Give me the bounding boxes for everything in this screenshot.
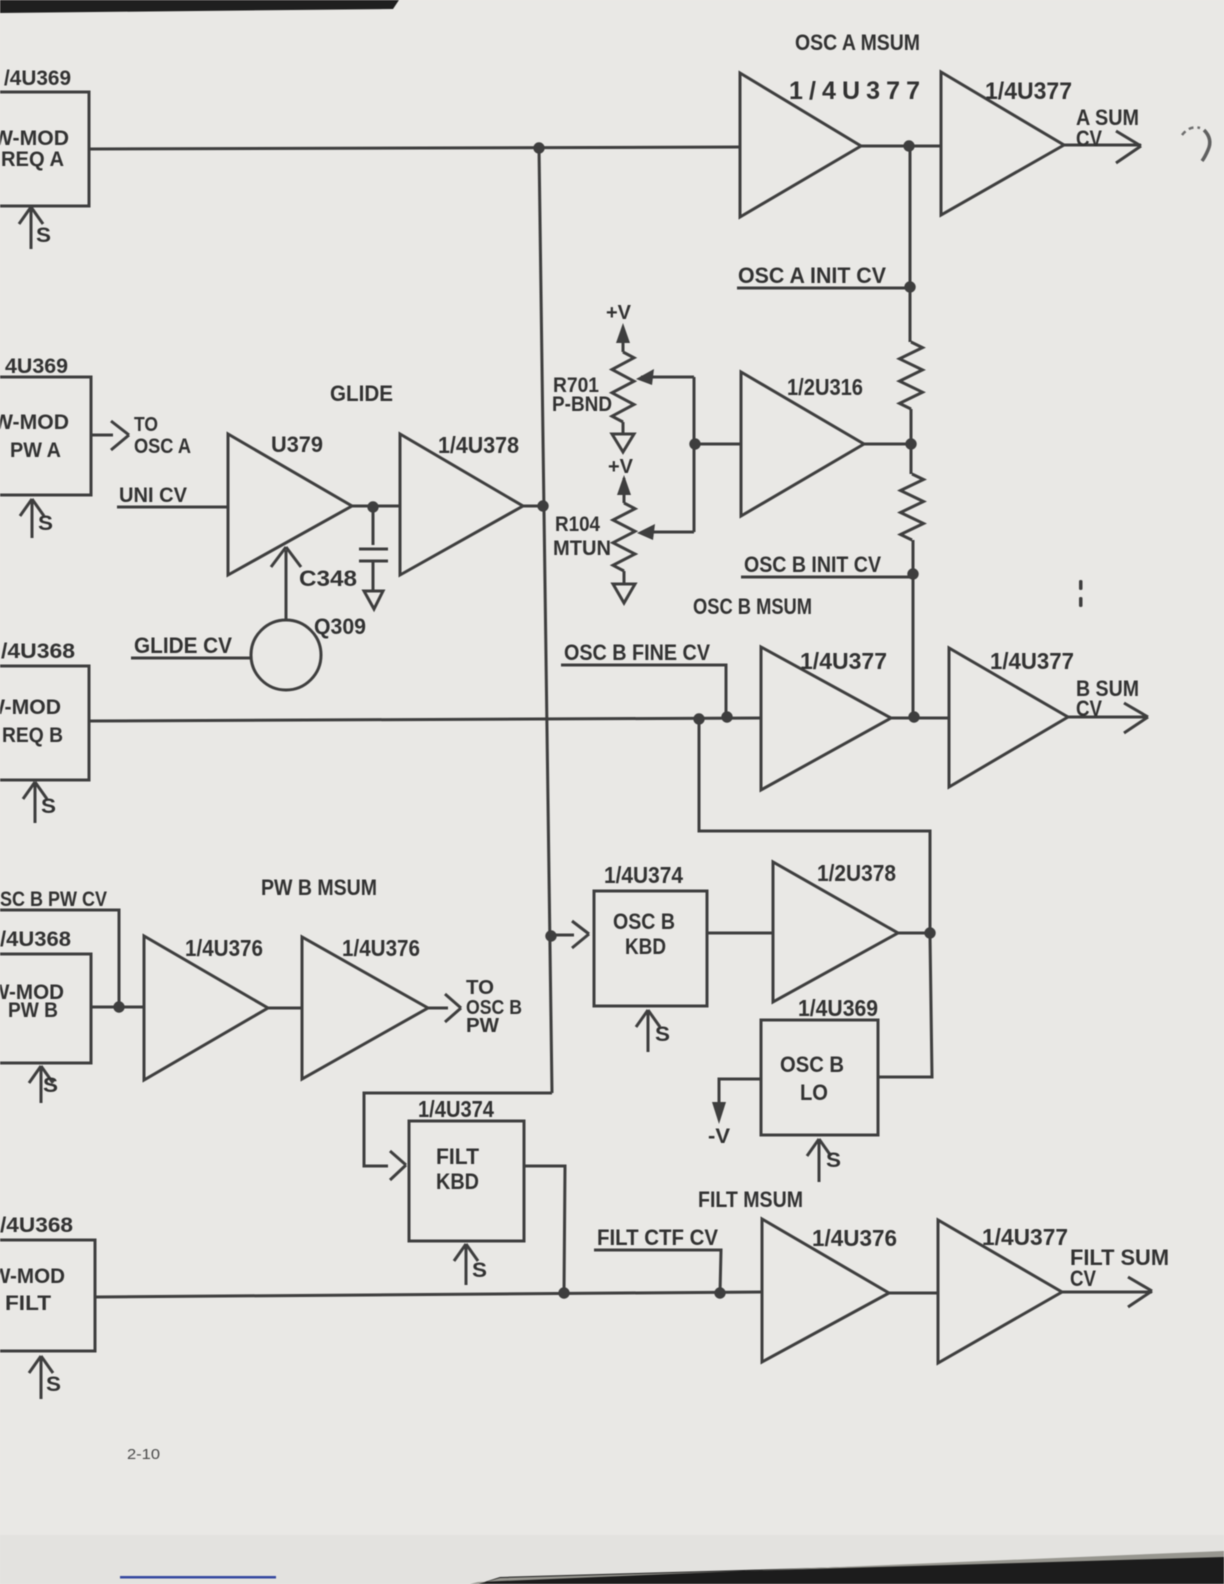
svg-text:W-MOD: W-MOD	[0, 127, 69, 150]
svg-text:/4U368: /4U368	[0, 1214, 73, 1237]
svg-text:OSC A INIT CV: OSC A INIT CV	[738, 263, 886, 288]
svg-text:Q309: Q309	[314, 614, 366, 639]
svg-text:CV: CV	[1070, 1266, 1096, 1291]
svg-text:1/4U378: 1/4U378	[438, 432, 519, 458]
svg-text:FILT CTF CV: FILT CTF CV	[597, 1225, 718, 1250]
svg-text:S: S	[41, 795, 56, 818]
svg-text:KBD: KBD	[436, 1169, 479, 1194]
svg-text:1/4U376: 1/4U376	[812, 1225, 897, 1251]
svg-text:R104: R104	[555, 513, 600, 536]
svg-text:OSC A: OSC A	[134, 435, 191, 458]
svg-text:S: S	[46, 1373, 61, 1396]
svg-text:S: S	[826, 1149, 841, 1172]
svg-text:SC B PW CV: SC B PW CV	[0, 888, 107, 911]
svg-text:P-BND: P-BND	[552, 393, 612, 416]
svg-text:GLIDE: GLIDE	[330, 381, 393, 406]
svg-text:FILT MSUM: FILT MSUM	[698, 1187, 803, 1212]
svg-text:1/4U377: 1/4U377	[982, 1224, 1068, 1250]
svg-text:1/2U378: 1/2U378	[817, 860, 896, 886]
svg-text:PW B: PW B	[8, 999, 58, 1022]
svg-text:S: S	[472, 1259, 487, 1282]
svg-text:OSC B MSUM: OSC B MSUM	[693, 594, 812, 619]
svg-text:OSC A MSUM: OSC A MSUM	[795, 30, 920, 55]
svg-text:/4U369: /4U369	[4, 67, 71, 90]
svg-text:/4U368: /4U368	[1, 640, 75, 663]
svg-text:PW: PW	[466, 1015, 499, 1037]
svg-text:CV: CV	[1076, 696, 1102, 721]
svg-text:C348: C348	[299, 566, 357, 591]
svg-text:/4U368: /4U368	[0, 928, 71, 951]
svg-text:OSC B: OSC B	[613, 909, 675, 934]
svg-text:S: S	[36, 224, 51, 247]
svg-text:1/4U374: 1/4U374	[418, 1096, 494, 1122]
svg-text:KBD: KBD	[625, 934, 666, 959]
svg-text:S: S	[43, 1074, 58, 1097]
svg-text:2-10: 2-10	[127, 1446, 160, 1463]
svg-text:4U369: 4U369	[5, 355, 68, 378]
svg-text:W-MOD: W-MOD	[0, 1265, 65, 1288]
svg-text:CV: CV	[1076, 126, 1102, 151]
svg-text:1/4U377: 1/4U377	[985, 78, 1072, 105]
svg-text:1/4U377: 1/4U377	[990, 648, 1074, 674]
svg-text:1/4U376: 1/4U376	[342, 935, 420, 961]
svg-text:PW B MSUM: PW B MSUM	[261, 875, 377, 900]
svg-text:OSC B INIT CV: OSC B INIT CV	[744, 552, 881, 577]
svg-text:1/4U374: 1/4U374	[604, 862, 683, 888]
svg-text:FILT: FILT	[5, 1292, 51, 1315]
svg-text:TO: TO	[134, 414, 158, 436]
svg-text:+V: +V	[608, 456, 634, 478]
svg-text:S: S	[655, 1023, 670, 1046]
svg-text:1/4U369: 1/4U369	[798, 995, 878, 1021]
svg-text:OSC B: OSC B	[780, 1052, 844, 1077]
svg-text:FILT: FILT	[436, 1144, 480, 1169]
svg-text:OSC B FINE CV: OSC B FINE CV	[564, 640, 710, 665]
svg-text:GLIDE CV: GLIDE CV	[134, 633, 232, 658]
svg-text:TO: TO	[466, 977, 494, 999]
svg-text:W-MOD: W-MOD	[0, 411, 69, 434]
svg-text:UNI CV: UNI CV	[119, 484, 187, 507]
svg-text:REQ A: REQ A	[1, 148, 64, 171]
svg-text:-V: -V	[708, 1125, 730, 1148]
svg-text:LO: LO	[800, 1080, 828, 1105]
svg-text:+V: +V	[606, 302, 632, 324]
svg-text:1/4U376: 1/4U376	[185, 935, 263, 961]
svg-text:REQ B: REQ B	[2, 724, 63, 747]
svg-text:1/2U316: 1/2U316	[787, 374, 863, 400]
svg-text:S: S	[38, 512, 53, 535]
svg-text:U379: U379	[271, 432, 323, 457]
svg-text:MTUN: MTUN	[553, 537, 611, 560]
svg-text:W-MOD: W-MOD	[0, 696, 61, 719]
svg-text:1/4U377: 1/4U377	[800, 648, 887, 674]
svg-text:PW A: PW A	[10, 439, 61, 462]
